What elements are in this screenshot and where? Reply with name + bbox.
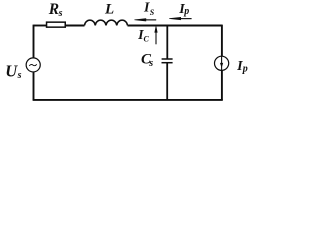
svg-text:C: C xyxy=(144,35,150,44)
svg-text:p: p xyxy=(242,64,248,75)
svg-text:s: s xyxy=(17,70,22,81)
svg-text:L: L xyxy=(104,1,114,17)
svg-text:U: U xyxy=(5,62,18,81)
svg-text:R: R xyxy=(48,1,59,18)
svg-text:s: s xyxy=(58,8,63,19)
svg-text:S: S xyxy=(150,8,155,17)
svg-text:p: p xyxy=(183,6,189,17)
svg-text:s: s xyxy=(148,58,153,69)
